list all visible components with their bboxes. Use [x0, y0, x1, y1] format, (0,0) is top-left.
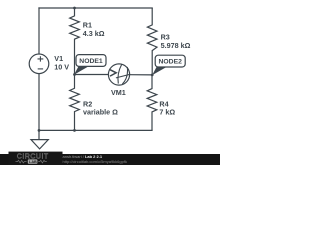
ground: [31, 130, 48, 149]
svg-text:VM1: VM1: [111, 88, 126, 97]
voltmeter VM1: [108, 64, 130, 85]
label R2 value: [83, 99, 118, 116]
footer logo squiggle right: [38, 160, 47, 163]
resistor R4: [147, 75, 157, 130]
junction dot top R1: [73, 7, 76, 10]
footer logo LAB chip: [28, 159, 38, 163]
wire top: [39, 7, 152, 9]
footer bar: [0, 154, 220, 165]
label R3 value: [161, 32, 191, 49]
footer logo box: [9, 152, 63, 165]
wire left upper: [38, 8, 40, 54]
svg-text:NODE2: NODE2: [158, 59, 182, 66]
junction dot node2: [151, 74, 154, 77]
footer logo resistor squiggle: [16, 160, 27, 163]
resistor R3: [147, 8, 157, 75]
junction dot R2 bottom: [73, 129, 76, 132]
label V1 value: [54, 54, 69, 72]
wire middle right: [130, 74, 152, 76]
svg-text:NODE1: NODE1: [79, 58, 103, 65]
resistor R2: [70, 75, 80, 131]
svg-text:LAB: LAB: [29, 160, 37, 164]
junction dot node1: [73, 73, 76, 76]
svg-text:10 V: 10 V: [54, 63, 69, 72]
wire left lower: [38, 74, 40, 131]
svg-text:variable Ω: variable Ω: [83, 108, 118, 117]
label R1 value: [83, 21, 105, 38]
junction dot bottom left: [38, 129, 41, 132]
node NODE2: [152, 55, 185, 75]
node NODE1: [74, 55, 106, 75]
voltage source V1: [29, 54, 49, 74]
svg-text:4.3 kΩ: 4.3 kΩ: [83, 29, 105, 38]
label R4 value: [159, 99, 175, 116]
wire bottom: [39, 129, 152, 131]
svg-text:7 kΩ: 7 kΩ: [159, 108, 175, 117]
resistor R1: [70, 8, 80, 75]
svg-text:http://circuitlab.com/c/5mya9k: http://circuitlab.com/c/5mya9kk6gpfk: [63, 159, 127, 164]
wire middle left: [75, 74, 109, 76]
svg-text:5.978 kΩ: 5.978 kΩ: [161, 41, 191, 50]
